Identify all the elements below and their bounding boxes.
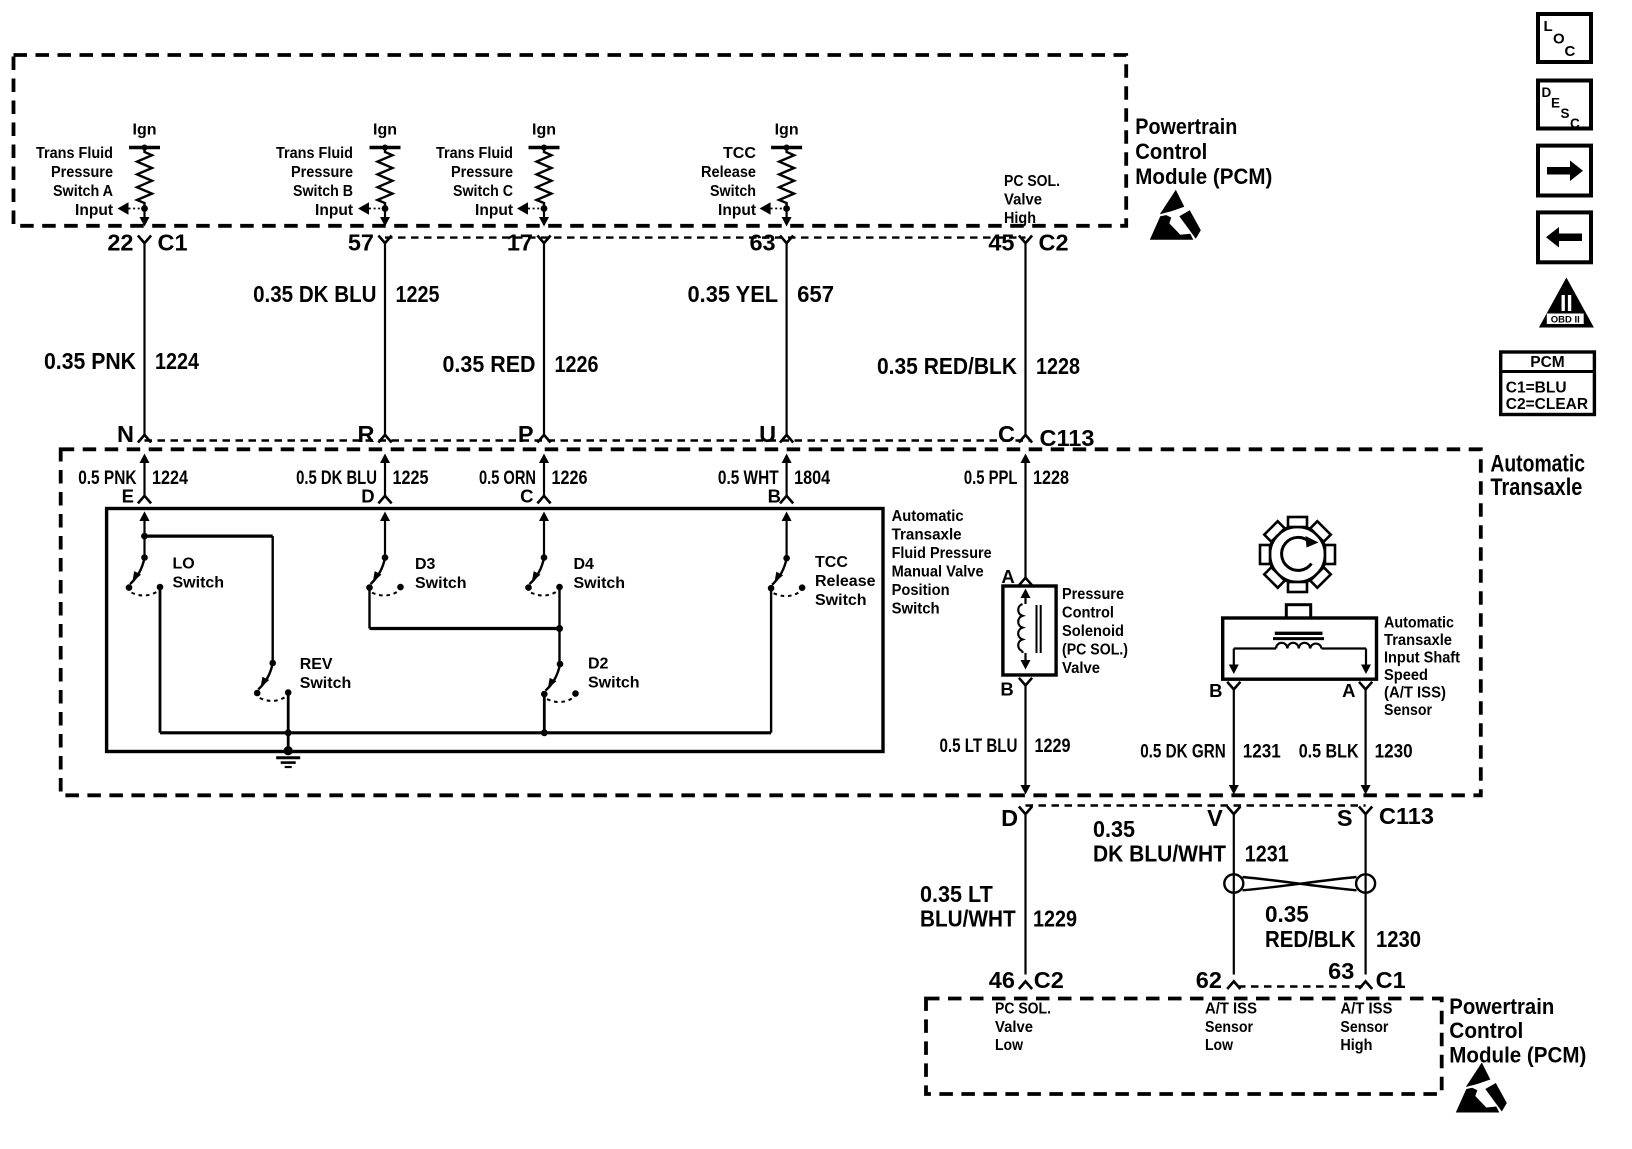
- connector C113 line (light dashed): [145, 439, 1032, 441]
- svg-text:REV: REV: [300, 656, 333, 673]
- svg-text:Valve: Valve: [1004, 192, 1042, 209]
- svg-text:TCC: TCC: [815, 554, 848, 571]
- svg-text:D: D: [1542, 85, 1552, 100]
- lead to pin with down arrow: [539, 209, 549, 227]
- C113 pin U fork: [780, 435, 793, 443]
- Automatic Transaxle box (dashed): [61, 449, 1481, 795]
- C113 pin R fork: [378, 435, 391, 443]
- svg-text:Automatic: Automatic: [892, 508, 964, 525]
- svg-text:(PC SOL.): (PC SOL.): [1062, 642, 1128, 659]
- label: Powertrain Control Module (PCM) bottom: [1449, 994, 1586, 1068]
- svg-text:17: 17: [507, 230, 533, 256]
- manual valve position switch box (solid): [107, 509, 883, 752]
- wire label 0.5 PNK 1224: [78, 468, 188, 489]
- svg-text:A: A: [1342, 680, 1355, 701]
- node: TCC release switch input junction: [783, 205, 790, 212]
- svg-text:Switch C: Switch C: [453, 183, 513, 200]
- connector line C1/C2 (light dashed): [385, 236, 1026, 238]
- Ign power rail (B): [370, 122, 401, 151]
- svg-text:B: B: [1209, 680, 1222, 701]
- svg-text:BLU/WHT: BLU/WHT: [920, 906, 1016, 932]
- wire TCC release switch output to ground bus: [770, 588, 772, 733]
- svg-text:High: High: [1004, 210, 1036, 227]
- svg-text:62: 62: [1196, 967, 1222, 993]
- wire label 0.5 DK GRN 1231: [1140, 742, 1281, 763]
- label: Trans Fluid Pressure Switch A Input: [36, 145, 114, 219]
- svg-text:Transaxle: Transaxle: [1384, 632, 1452, 649]
- svg-text:Pressure: Pressure: [1062, 586, 1124, 603]
- wire label 0.35 RED/BLK 1230: [1265, 901, 1421, 952]
- sensor pin A fork: [1359, 682, 1372, 690]
- pin number 45: [988, 230, 1014, 256]
- svg-text:Manual Valve: Manual Valve: [892, 564, 984, 581]
- svg-text:C2: C2: [1039, 230, 1069, 256]
- pin 46 fork: [1019, 981, 1032, 989]
- svg-text:Solenoid: Solenoid: [1062, 623, 1124, 640]
- svg-text:57: 57: [348, 230, 374, 256]
- pin letter C: [520, 486, 533, 507]
- svg-text:S: S: [1337, 805, 1353, 831]
- wire 1226 (0.5 ORN) C113 into transaxle: [539, 454, 549, 496]
- OBD II triangle icon: [1539, 278, 1594, 328]
- svg-text:R: R: [358, 421, 375, 447]
- svg-text:E: E: [122, 486, 134, 507]
- svg-text:Switch: Switch: [710, 183, 756, 200]
- wire label 0.35 DK BLU/WHT 1231: [1093, 816, 1289, 867]
- svg-text:C: C: [1570, 116, 1580, 131]
- svg-text:C1: C1: [158, 230, 188, 256]
- pin 22 fork: [138, 236, 151, 244]
- wire label 0.5 ORN 1226: [479, 468, 588, 489]
- connector label C113 (bottom): [1379, 803, 1434, 829]
- svg-text:Sensor: Sensor: [1340, 1019, 1388, 1036]
- svg-text:1226: 1226: [555, 351, 599, 377]
- D4 Switch: [525, 512, 563, 596]
- svg-text:V: V: [1207, 805, 1223, 831]
- svg-text:Switch: Switch: [588, 674, 640, 691]
- svg-text:Speed: Speed: [1384, 667, 1428, 684]
- node: switch A input junction: [141, 205, 148, 212]
- label: PC SOL. Valve High: [1004, 173, 1060, 227]
- input arrow (TCC Release Switch Input): [760, 202, 787, 215]
- A/T ISS sensor box: [1223, 618, 1377, 679]
- pull-up resistor (Trans Fluid Pressure Switch B): [378, 148, 393, 209]
- wire 1224 (0.5 PNK) C113 into transaxle: [140, 454, 150, 496]
- svg-text:C1=BLU: C1=BLU: [1506, 380, 1567, 397]
- C113 pin C fork: [1019, 435, 1032, 443]
- svg-text:Switch B: Switch B: [293, 183, 353, 200]
- svg-text:Ign: Ign: [133, 122, 157, 139]
- pin number 63: [1328, 958, 1354, 984]
- sensor connector stub: [1286, 605, 1310, 618]
- input arrow (Trans Fluid Pressure Switch A Input): [118, 202, 145, 215]
- pin D fork (bottom): [1019, 807, 1032, 815]
- wire B pin to TCC release switch: [785, 516, 787, 558]
- svg-text:Low: Low: [995, 1037, 1023, 1054]
- svg-text:Fluid Pressure: Fluid Pressure: [892, 545, 992, 562]
- label: LO Switch: [173, 556, 225, 592]
- svg-text:0.35 RED/BLK: 0.35 RED/BLK: [877, 353, 1017, 379]
- svg-text:Sensor: Sensor: [1384, 702, 1432, 719]
- svg-text:PCM: PCM: [1530, 354, 1564, 371]
- label: Automatic Transaxle: [1490, 450, 1585, 501]
- svg-text:A/T ISS: A/T ISS: [1340, 1001, 1392, 1018]
- pin 63 fork: [1359, 981, 1372, 989]
- svg-text:O: O: [1553, 31, 1565, 48]
- svg-text:Ign: Ign: [775, 122, 799, 139]
- wire label 0.35 PNK 1224: [44, 348, 199, 374]
- svg-text:Pressure: Pressure: [451, 164, 513, 181]
- svg-text:0.35 RED: 0.35 RED: [443, 351, 536, 377]
- connector label C113: [1040, 425, 1095, 451]
- svg-text:Switch A: Switch A: [53, 183, 113, 200]
- svg-text:1228: 1228: [1036, 353, 1080, 379]
- pin number 46: [989, 967, 1015, 993]
- label: A/T ISS Sensor Low: [1205, 1001, 1257, 1055]
- wire label 0.35 RED 1226: [443, 351, 599, 377]
- svg-text:C: C: [998, 421, 1015, 447]
- svg-text:0.35 YEL: 0.35 YEL: [688, 281, 779, 307]
- svg-text:Switch: Switch: [173, 575, 225, 592]
- valve pin B fork: [1019, 678, 1032, 686]
- svg-text:22: 22: [107, 230, 133, 256]
- svg-text:0.5 BLK: 0.5 BLK: [1299, 742, 1359, 763]
- wire E pin to LO switch: [140, 512, 150, 558]
- svg-text:U: U: [759, 421, 776, 447]
- pull-up resistor (Trans Fluid Pressure Switch C): [537, 148, 552, 209]
- lead to pin 63 with down arrow: [782, 209, 792, 227]
- PC SOL valve box: [1003, 586, 1056, 675]
- REV switch: [254, 660, 292, 701]
- svg-text:PC SOL.: PC SOL.: [1004, 173, 1060, 190]
- wire 1229 (0.35 LT BLU/WHT) to PCM pin 46: [1024, 814, 1026, 975]
- label: Trans Fluid Pressure Switch B Input: [276, 145, 354, 219]
- svg-text:A/T ISS: A/T ISS: [1205, 1001, 1257, 1018]
- svg-text:1230: 1230: [1376, 926, 1421, 952]
- twisted pair symbol (1231/1230): [1224, 874, 1375, 892]
- svg-text:0.5 LT BLU: 0.5 LT BLU: [940, 736, 1018, 757]
- svg-text:DK BLU/WHT: DK BLU/WHT: [1093, 841, 1227, 867]
- svg-text:Pressure: Pressure: [51, 164, 113, 181]
- A/T ISS sensor gear icon: [1260, 517, 1335, 592]
- svg-text:Valve: Valve: [995, 1019, 1033, 1036]
- pin letter D: [361, 486, 374, 507]
- pin 62 fork: [1227, 981, 1240, 989]
- PCM connector color legend table: [1501, 352, 1595, 415]
- pin number 22: [107, 230, 133, 256]
- svg-text:Trans Fluid: Trans Fluid: [436, 145, 513, 162]
- C113 pin N fork: [138, 435, 151, 443]
- pin letter B (valve): [1000, 679, 1013, 700]
- connector line below transaxle (light dashed): [1026, 804, 1366, 806]
- svg-text:Trans Fluid: Trans Fluid: [36, 145, 113, 162]
- pin 45 fork: [1019, 236, 1032, 244]
- svg-text:(A/T ISS): (A/T ISS): [1384, 685, 1446, 702]
- svg-text:C: C: [1565, 43, 1576, 60]
- wire label 0.5 DK BLU 1225: [296, 468, 429, 489]
- svg-text:C1: C1: [1376, 967, 1406, 993]
- svg-text:63: 63: [1328, 958, 1354, 984]
- svg-text:Module (PCM): Module (PCM): [1449, 1043, 1586, 1068]
- sensor internals (core + coil + leads): [1229, 633, 1371, 674]
- svg-text:PC SOL.: PC SOL.: [995, 1001, 1051, 1018]
- wire label 0.35 RED/BLK 1228: [877, 353, 1080, 379]
- LO Switch: [126, 512, 164, 596]
- pin letter S (bottom): [1337, 805, 1353, 831]
- C113 pin letter P: [518, 421, 534, 447]
- svg-text:P: P: [518, 421, 534, 447]
- svg-text:Control: Control: [1135, 139, 1207, 164]
- pin number 62: [1196, 967, 1222, 993]
- pin number 63: [749, 230, 775, 256]
- C113 pin letter C: [998, 421, 1015, 447]
- svg-text:Input: Input: [315, 202, 354, 219]
- wire 1224 (0.35 PNK) PCM to C113: [143, 243, 145, 435]
- svg-text:0.35 DK BLU: 0.35 DK BLU: [253, 281, 376, 307]
- svg-text:C2=CLEAR: C2=CLEAR: [1506, 396, 1588, 413]
- node: D3/D4 junction: [556, 625, 563, 632]
- Ign power rail (A): [129, 122, 160, 151]
- svg-text:46: 46: [989, 967, 1015, 993]
- node: D2 output on ground bus: [541, 729, 548, 736]
- label: TCC Release Switch: [815, 554, 876, 609]
- wire 1225 (0.5 DK BLU) C113 into transaxle: [380, 454, 390, 496]
- C113 pin P fork: [537, 435, 550, 443]
- PC SOL valve internals (coil + core): [1018, 589, 1040, 670]
- pin number 17: [507, 230, 533, 256]
- wire 1231 (0.35 DK BLU/WHT) to PCM pin 62: [1233, 814, 1235, 975]
- pin letter A (sensor): [1342, 680, 1355, 701]
- pin number 57: [348, 230, 374, 256]
- PCM module box (top, dashed): [14, 55, 1127, 226]
- svg-text:1229: 1229: [1033, 906, 1077, 932]
- svg-text:1224: 1224: [155, 348, 199, 374]
- wire label 0.35 YEL 657: [688, 281, 835, 307]
- ground: [276, 746, 300, 767]
- connector name C1: [158, 230, 188, 256]
- svg-text:Automatic: Automatic: [1384, 615, 1454, 632]
- wire 1226 (0.35 RED) PCM to C113: [543, 243, 545, 435]
- svg-text:S: S: [1561, 106, 1570, 121]
- pull-up resistor (TCC Release Switch): [779, 148, 794, 209]
- wire 1230 (0.5 BLK) sensor A to transaxle edge: [1361, 689, 1371, 794]
- svg-text:Switch: Switch: [892, 601, 940, 618]
- valve pin A fork: [1019, 578, 1032, 586]
- wire D3 switch output: [370, 588, 560, 629]
- svg-text:High: High: [1340, 1037, 1372, 1054]
- wire C pin to D4 switch: [543, 516, 545, 558]
- node: REV output on ground bus: [285, 729, 292, 736]
- label: Automatic Transaxle Input Shaft Speed (A/T ISS) Sensor: [1384, 615, 1460, 720]
- svg-text:Release: Release: [815, 573, 876, 590]
- sensor pin B fork: [1227, 682, 1240, 690]
- svg-text:1804: 1804: [794, 468, 830, 489]
- wire 1225 (0.35 DK BLU) PCM to C113: [384, 243, 386, 435]
- connector name C2: [1034, 967, 1064, 993]
- svg-text:1229: 1229: [1035, 736, 1071, 757]
- wire 1228 (0.5 PPL) C113 to PC SOL valve: [1021, 454, 1031, 578]
- D2 switch: [541, 661, 579, 702]
- label: Powertrain Control Module (PCM) top: [1135, 114, 1272, 189]
- pin 17 fork: [537, 236, 550, 244]
- svg-text:Input Shaft: Input Shaft: [1384, 650, 1460, 667]
- C113 pin letter N: [117, 421, 134, 447]
- svg-text:B: B: [1000, 679, 1013, 700]
- svg-text:E: E: [1551, 96, 1560, 111]
- svg-text:TCC: TCC: [723, 145, 756, 162]
- svg-text:1231: 1231: [1245, 841, 1289, 867]
- icon box left-arrow: [1538, 212, 1591, 262]
- ESD sensitivity symbol (bottom PCM): [1456, 1063, 1507, 1113]
- wire 1230 (0.35 RED/BLK) to PCM pin 63: [1364, 814, 1366, 975]
- wire D pin to D3 switch: [384, 516, 386, 558]
- svg-text:657: 657: [797, 281, 834, 307]
- node: switch C input junction: [541, 205, 548, 212]
- svg-text:Position: Position: [892, 582, 950, 599]
- label: REV Switch: [300, 656, 352, 692]
- svg-text:Powertrain: Powertrain: [1135, 114, 1237, 139]
- svg-text:C113: C113: [1040, 425, 1095, 451]
- switch pin C fork: [537, 496, 550, 504]
- pin letter B (sensor): [1209, 680, 1222, 701]
- svg-text:A: A: [1001, 566, 1014, 587]
- svg-text:RED/BLK: RED/BLK: [1265, 926, 1356, 952]
- svg-text:Release: Release: [701, 164, 756, 181]
- svg-text:C: C: [520, 486, 533, 507]
- D3 Switch: [366, 512, 404, 596]
- svg-text:1225: 1225: [393, 468, 429, 489]
- svg-text:Switch: Switch: [415, 575, 467, 592]
- Ign power rail (C): [529, 122, 560, 151]
- svg-text:0.35: 0.35: [1265, 901, 1309, 927]
- C113 pin letter U: [759, 421, 776, 447]
- svg-text:0.35 LT: 0.35 LT: [920, 881, 993, 907]
- svg-text:Control: Control: [1449, 1018, 1523, 1043]
- svg-text:LO: LO: [173, 556, 195, 573]
- label: PC SOL Valve Low: [995, 1001, 1051, 1055]
- icon box right-arrow: [1538, 146, 1591, 196]
- pin letter V (bottom): [1207, 805, 1223, 831]
- pin 63 fork: [780, 236, 793, 244]
- svg-text:1226: 1226: [552, 468, 588, 489]
- label: A/T ISS Sensor High: [1340, 1001, 1392, 1055]
- label: Trans Fluid Pressure Switch C Input: [436, 145, 514, 219]
- wire label 0.5 PPL 1228: [964, 468, 1069, 489]
- C113 pin letter R: [358, 421, 375, 447]
- connector name C2: [1039, 230, 1069, 256]
- svg-text:C113: C113: [1379, 803, 1434, 829]
- wire 1229 (0.5 LT BLU) valve B to transaxle edge: [1021, 685, 1031, 794]
- svg-text:Control: Control: [1062, 605, 1114, 622]
- switch pin E fork: [138, 496, 151, 504]
- svg-text:D3: D3: [415, 556, 436, 573]
- TCC Release Switch: [768, 512, 806, 597]
- svg-text:Sensor: Sensor: [1205, 1019, 1253, 1036]
- svg-text:D4: D4: [574, 556, 595, 573]
- svg-text:Ign: Ign: [532, 122, 556, 139]
- wire 1228 (0.35 RED/BLK) PCM to C113: [1024, 243, 1026, 435]
- switch pin B fork: [780, 496, 793, 504]
- lead to pin with down arrow: [140, 209, 150, 227]
- pin 57 fork: [378, 236, 391, 244]
- svg-text:Switch: Switch: [815, 592, 867, 609]
- PCM module box (bottom, dashed): [926, 999, 1442, 1095]
- connector C1 line segment (light dashed): [1238, 985, 1363, 987]
- wire 1231 (0.5 DK GRN) sensor B to transaxle edge: [1229, 689, 1239, 794]
- svg-text:0.5 DK GRN: 0.5 DK GRN: [1140, 742, 1226, 763]
- svg-text:0.35: 0.35: [1093, 816, 1135, 842]
- pin letter B: [768, 486, 781, 507]
- svg-text:63: 63: [749, 230, 775, 256]
- pin letter D (bottom): [1001, 805, 1018, 831]
- node: switch B input junction: [382, 205, 389, 212]
- svg-text:Trans Fluid: Trans Fluid: [276, 145, 353, 162]
- svg-text:II: II: [1560, 290, 1573, 316]
- svg-text:1224: 1224: [152, 468, 188, 489]
- svg-text:L: L: [1544, 18, 1553, 35]
- svg-text:Switch: Switch: [574, 575, 626, 592]
- svg-text:0.35 PNK: 0.35 PNK: [44, 348, 136, 374]
- input arrow (Trans Fluid Pressure Switch C Input): [517, 202, 544, 215]
- icon box LOC: [1538, 14, 1591, 62]
- wire label 0.35 LT BLU/WHT 1229: [920, 881, 1077, 932]
- wire 657 (0.35 YEL) PCM to C113: [785, 243, 787, 435]
- label: TCC Release Switch Input: [701, 145, 757, 219]
- svg-text:1231: 1231: [1243, 742, 1281, 763]
- svg-text:1225: 1225: [396, 281, 440, 307]
- svg-text:Transaxle: Transaxle: [892, 527, 962, 544]
- svg-text:Transaxle: Transaxle: [1490, 474, 1582, 501]
- svg-text:45: 45: [988, 230, 1014, 256]
- pin letter E: [122, 486, 134, 507]
- svg-text:D2: D2: [588, 655, 609, 672]
- svg-text:N: N: [117, 421, 134, 447]
- svg-text:Ign: Ign: [373, 122, 397, 139]
- pull-up resistor (Trans Fluid Pressure Switch A): [137, 148, 152, 209]
- wire label 0.5 WHT 1804: [718, 468, 831, 489]
- svg-text:Low: Low: [1205, 1037, 1233, 1054]
- svg-text:Input: Input: [718, 202, 757, 219]
- svg-text:D: D: [361, 486, 374, 507]
- svg-text:1228: 1228: [1033, 468, 1069, 489]
- label: D4 Switch: [574, 556, 626, 592]
- svg-text:Module (PCM): Module (PCM): [1135, 164, 1272, 189]
- wire LO switch output to ground bus: [159, 588, 162, 733]
- svg-text:Input: Input: [475, 202, 514, 219]
- wire D4 switch output to D2: [558, 587, 560, 664]
- connector name C1: [1376, 967, 1406, 993]
- label: D2 Switch: [588, 655, 640, 691]
- pin V fork (bottom): [1227, 807, 1240, 815]
- switch pin D fork: [378, 496, 391, 504]
- label: Pressure Control Solenoid (PC SOL.) Valve: [1062, 586, 1128, 677]
- wire label 0.5 BLK 1230: [1299, 742, 1413, 763]
- svg-text:1230: 1230: [1375, 742, 1413, 763]
- wire D2 switch output to ground bus: [543, 694, 546, 733]
- ground bus wire: [160, 731, 771, 734]
- wire REV switch output to ground: [287, 693, 290, 751]
- label: Automatic Transaxle Fluid Pressure Manual Valve Position Switch: [892, 508, 992, 618]
- wire label 0.35 DK BLU 1225: [253, 281, 439, 307]
- svg-text:Valve: Valve: [1062, 660, 1100, 677]
- icon box DESC: [1538, 81, 1591, 132]
- svg-text:Switch: Switch: [300, 675, 352, 692]
- label: D3 Switch: [415, 556, 467, 592]
- svg-text:B: B: [768, 486, 781, 507]
- pin S fork (bottom): [1359, 807, 1372, 815]
- svg-text:C2: C2: [1034, 967, 1064, 993]
- svg-text:Pressure: Pressure: [291, 164, 353, 181]
